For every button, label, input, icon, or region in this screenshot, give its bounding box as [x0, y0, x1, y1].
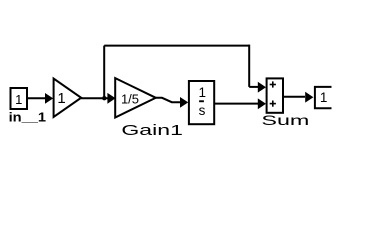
svg-text:1: 1	[57, 90, 65, 107]
gain block Gain1 (triangle, value 1/5)	[115, 78, 156, 117]
svg-text:s: s	[199, 103, 206, 118]
arrowhead into Gain1	[107, 93, 115, 104]
wire Sum to outport	[283, 96, 305, 98]
arrowhead into gain	[45, 93, 53, 104]
branch wire vertical up	[103, 46, 105, 99]
branch junction dot	[102, 96, 106, 100]
svg-text:1/5: 1/5	[121, 91, 139, 106]
outport block (open right side)	[315, 87, 332, 108]
wire Gain1 to integrator (with diagonal jog)	[156, 98, 180, 102]
svg-text:Gain1: Gain1	[121, 122, 183, 139]
svg-text:in__1: in__1	[9, 110, 47, 125]
svg-text:1: 1	[15, 92, 22, 107]
wire gain to Gain1	[81, 97, 112, 99]
arrowhead into integrator	[180, 97, 188, 108]
arrowhead into Sum top input	[258, 82, 266, 93]
sum block Sum	[267, 78, 283, 112]
svg-text:1: 1	[320, 90, 328, 105]
wire inport to gain	[27, 97, 45, 99]
arrowhead into Sum bottom input	[258, 98, 266, 109]
svg-text:Sum: Sum	[261, 112, 309, 128]
integrator block 1/s	[189, 81, 214, 124]
wire integrator to Sum	[214, 103, 258, 105]
arrowhead into outport	[305, 92, 313, 103]
branch wire top horizontal	[104, 45, 249, 47]
branch wire into Sum	[249, 86, 258, 88]
svg-text:1: 1	[198, 85, 206, 100]
branch wire vertical down	[248, 45, 250, 87]
gain block (triangle, value 1)	[54, 79, 82, 118]
inport block in__1	[11, 88, 28, 109]
